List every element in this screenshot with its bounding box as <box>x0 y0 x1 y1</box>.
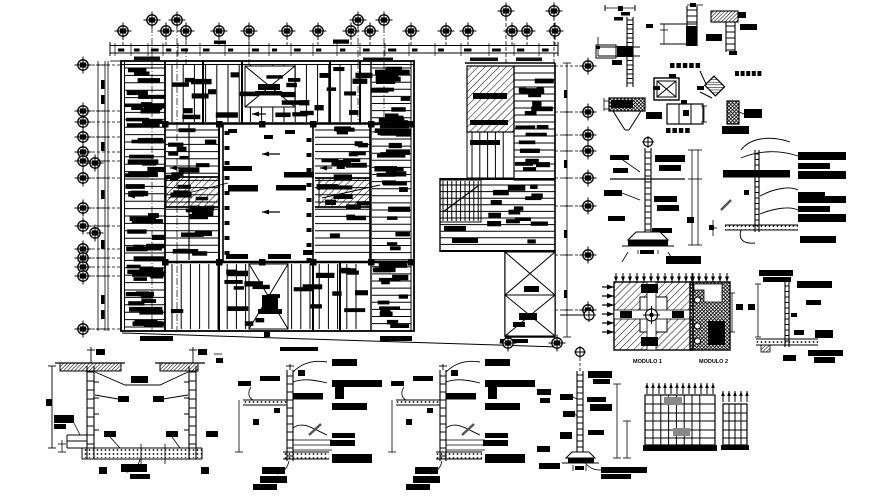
wall left dim bracket <box>238 400 240 452</box>
tank B1 wall inner ticks <box>94 381 99 383</box>
detail D2 corner joint <box>686 6 688 46</box>
wall beam <box>293 393 323 400</box>
top band labels <box>172 67 406 119</box>
bottom grid bubbles <box>507 337 509 348</box>
detail F1 right labels <box>655 155 685 162</box>
modulo 1 top arrow row <box>614 273 618 282</box>
detail D9 hatched column block <box>727 101 739 124</box>
wing joist strip below hatch <box>467 132 514 178</box>
under-plan labels <box>140 336 173 341</box>
detail F3 wall section right <box>784 282 786 347</box>
column detail B4 right labels <box>588 371 612 378</box>
right flank labels <box>317 126 370 237</box>
column detail B4 bottom dims <box>572 465 574 471</box>
detail D1 column-beam cross <box>626 17 628 87</box>
grid elevation B5 frame <box>645 395 715 445</box>
wall right leader curves <box>446 361 480 372</box>
detail D4 label dash row <box>670 63 675 68</box>
wall right leader curves <box>293 361 327 372</box>
wall below labels <box>415 467 438 474</box>
detail F2 left bracket <box>712 220 714 236</box>
wing right dimension line <box>566 63 568 337</box>
top grid bubbles upper row <box>151 26 153 330</box>
detail F2 right label stack <box>798 152 846 160</box>
detail F1 left labels <box>610 155 629 160</box>
grid elevation B6 frame <box>723 404 747 445</box>
detail F2 floor slab <box>725 224 798 226</box>
mid beam at courtyard bottom <box>166 261 411 264</box>
detail F2 small marks <box>744 190 749 195</box>
courtyard arrows <box>262 152 280 157</box>
wall below labels <box>262 467 285 474</box>
detail D6 angled connection <box>705 76 725 96</box>
courtyard edge tick squares <box>225 131 230 135</box>
tank B1 right wall <box>188 366 190 459</box>
wall right label stack <box>332 359 357 366</box>
tank B1 left wall <box>86 366 88 459</box>
top dimension tick labels <box>118 49 124 52</box>
bottom band thick columns <box>218 262 220 331</box>
grid elevation B6 base <box>721 445 749 450</box>
modulo 1 left arrows <box>602 285 614 290</box>
grid elevation B6 arrows <box>721 391 725 402</box>
modulo 2 right dim marks <box>731 293 733 332</box>
modulo 1 black blocks <box>641 284 658 293</box>
detail D8 three-cell beam <box>667 104 703 124</box>
far right strip horizontal joists <box>370 61 372 331</box>
right flank arrow <box>320 166 332 171</box>
wall section detail at x=287 <box>286 370 288 461</box>
tank B1 center bottom ticks <box>140 444 142 464</box>
tank B1 top ticks <box>90 347 92 363</box>
detail D7 hatched beam with legs <box>609 98 645 111</box>
detail F2 wall section <box>754 150 756 232</box>
detail F3 bottom labels <box>783 355 796 361</box>
bottom band labels <box>171 267 400 326</box>
wall bottom slab <box>436 451 482 453</box>
top band beam <box>165 122 411 125</box>
wall diagonal slash <box>309 424 321 435</box>
tank B1 left ledge <box>67 434 87 436</box>
wall floor line <box>243 399 287 401</box>
bottom band X-braced bay <box>249 264 288 329</box>
top grid bubbles highest <box>505 17 507 63</box>
wing bottom tiny text <box>500 339 528 343</box>
plan bottom continuation line <box>122 333 558 347</box>
tank B1 left dim line <box>51 366 53 448</box>
modulo 2 top arrow row <box>690 273 694 282</box>
plan left strip labels <box>125 68 166 328</box>
wall top tick <box>289 364 291 370</box>
wall stirrup lines <box>446 439 485 441</box>
wall right label stack <box>485 359 510 366</box>
detail F3 floor slab <box>756 338 818 340</box>
detail D5 column square with X <box>654 78 679 100</box>
wall top tick <box>442 364 444 370</box>
column detail B4 left labels <box>537 389 551 395</box>
wall stirrup lines <box>293 439 332 441</box>
wall beam <box>446 393 476 400</box>
column detail B4 big label <box>601 467 647 473</box>
detail F1 bottom dim <box>637 250 639 254</box>
plan top band vertical joists <box>172 65 351 123</box>
modulo 2 hatched plan <box>690 282 730 350</box>
modulo 1 hatched plan <box>614 282 693 350</box>
far right strip labels <box>373 67 411 328</box>
plan outer border <box>121 61 414 331</box>
column detail B4 top bubble <box>576 348 585 357</box>
right grid bubbles column <box>555 65 580 67</box>
grid elevation B5 gray blocks <box>664 397 682 405</box>
wall diagonal slash <box>462 424 474 435</box>
tank B1 bottom slab <box>82 447 202 449</box>
plan left strip horizontal joists <box>125 68 166 327</box>
left flank hatch band <box>166 177 219 207</box>
courtyard border beams <box>222 124 224 262</box>
wing hatched room <box>467 66 514 132</box>
column detail B4 footing <box>566 452 595 458</box>
wall left marks <box>413 376 433 381</box>
top band thick columns <box>202 61 204 123</box>
wing band labels <box>487 184 548 243</box>
tank B1 funnel leaders <box>95 372 188 385</box>
detail F1 column footing section <box>642 136 654 148</box>
detail D3 top corner <box>711 11 738 22</box>
right flank horizontal joists <box>315 130 370 252</box>
courtyard labels <box>228 129 237 133</box>
column squares at intersections <box>162 121 169 128</box>
modulo 1 left section bubble <box>584 310 594 320</box>
detail F1 footing <box>628 232 668 240</box>
detail D1 left bracket <box>596 45 616 58</box>
column detail B4 mast <box>576 371 578 452</box>
modulo 1 center target <box>646 309 658 321</box>
left top corner tick <box>110 60 121 62</box>
svg-text:MODULO 2: MODULO 2 <box>699 359 728 365</box>
left flank arrow <box>170 166 184 171</box>
tank B1 ground hatch right <box>155 362 205 364</box>
left grid bubbles column <box>92 64 121 66</box>
left flank labels <box>166 128 216 255</box>
right flank hatch leader <box>322 185 380 198</box>
left vertical dimension lines <box>97 61 99 331</box>
detail F1 dim lines right <box>691 150 693 245</box>
wall left marks <box>260 376 280 381</box>
svg-text:MODULO 1: MODULO 1 <box>633 359 662 365</box>
wall floor line <box>396 399 440 401</box>
tank B1 ledge dims <box>61 440 63 452</box>
wing top edge <box>465 62 555 64</box>
detail F2 leader curves <box>741 138 790 150</box>
top grid bubbles row <box>122 37 124 46</box>
wing stairs <box>440 180 481 222</box>
left flank hatch leader <box>168 183 228 198</box>
wall section detail at x=440 <box>439 370 441 461</box>
tank B1 inner labels <box>104 431 116 437</box>
wing mid horizontal joist band <box>440 178 555 180</box>
column detail B4 dim lines <box>616 384 618 458</box>
wall left dim bracket <box>391 400 393 452</box>
top band X-braced bay <box>245 66 295 107</box>
wing lower beam <box>440 250 555 252</box>
plan top tiny text <box>134 57 160 61</box>
tank B1 ground hatch left <box>55 362 125 364</box>
modulo 2 circles <box>695 297 701 303</box>
wall bottom slab <box>283 451 329 453</box>
tank B1 bottom labels <box>121 464 147 472</box>
right flank hatch band <box>319 178 370 207</box>
grid elevation B5 base <box>643 445 717 451</box>
wing bottom X-braced strip <box>504 251 506 337</box>
left dim text labels <box>101 80 104 89</box>
wing top tiny text <box>470 58 498 62</box>
left grid extra bubbles <box>87 155 104 172</box>
grid line continuations into plan <box>185 37 187 64</box>
left strip arrow <box>128 194 144 199</box>
grid elevation B5 arrows <box>645 383 649 394</box>
top grid dimension lines <box>110 45 558 47</box>
wing right strip <box>514 66 555 180</box>
bottom band vertical joists <box>172 264 356 329</box>
left flank horizontal joists <box>166 130 219 252</box>
